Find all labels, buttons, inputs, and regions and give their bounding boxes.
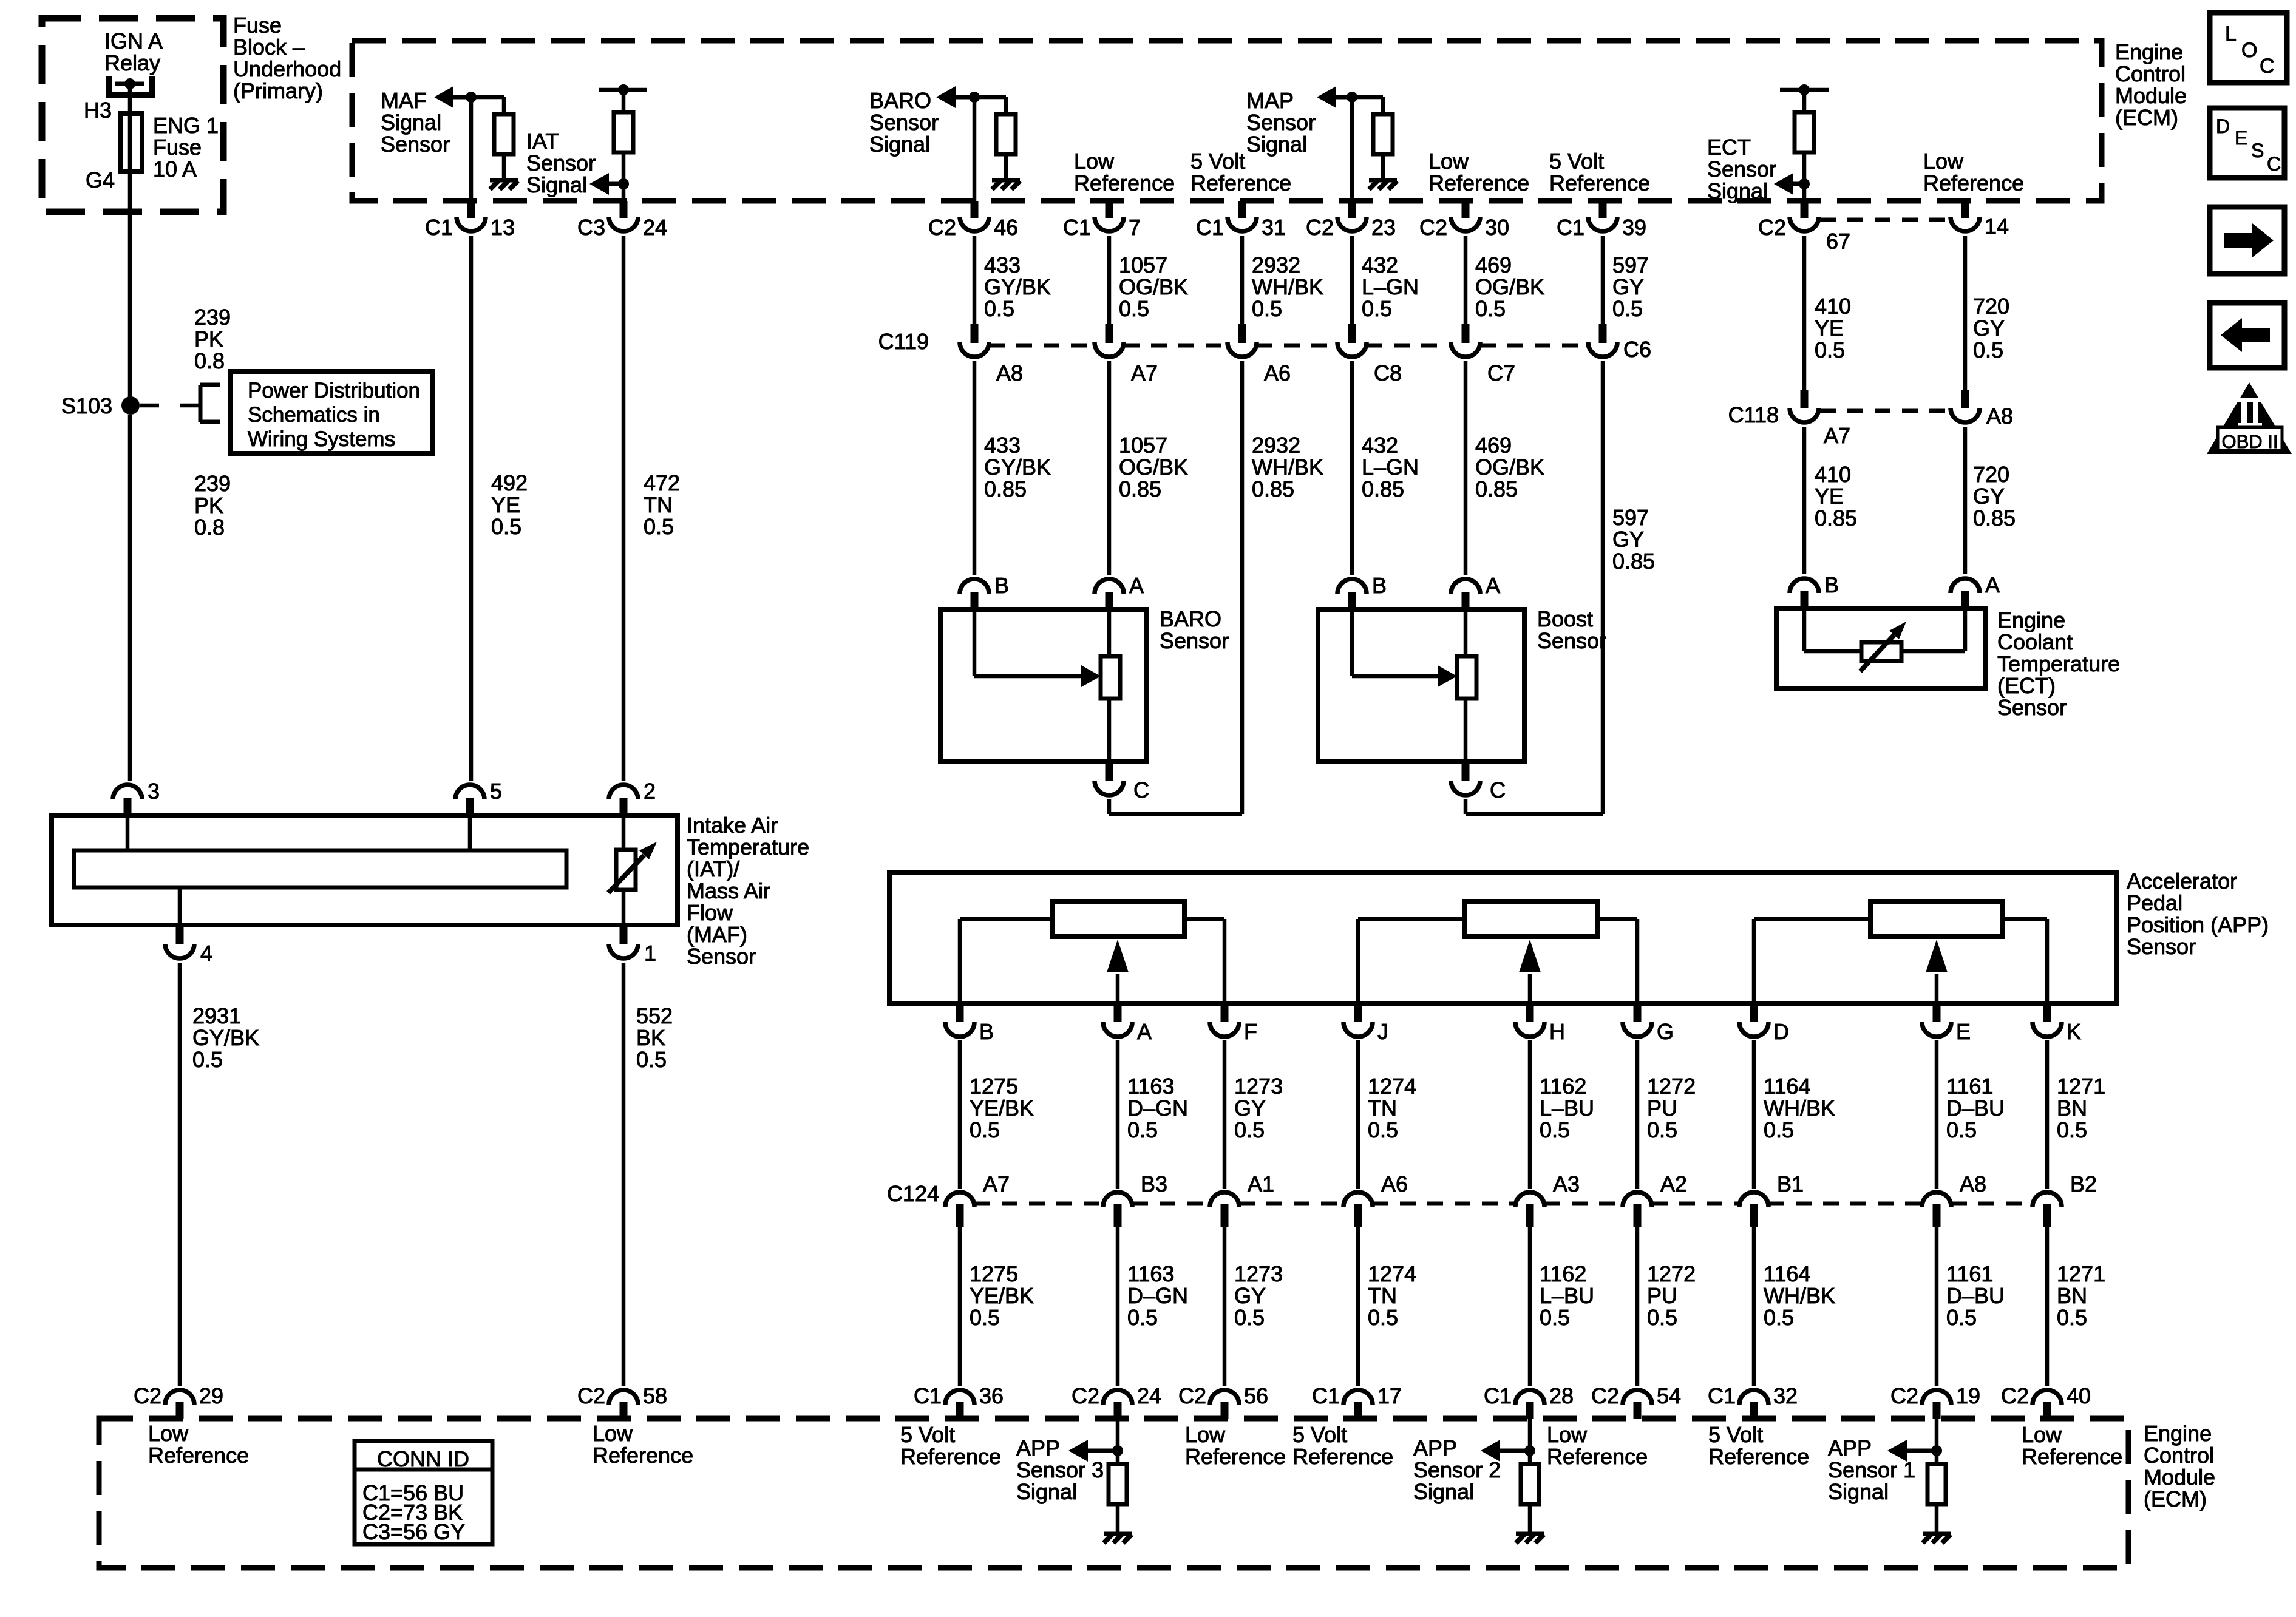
svg-text:1273: 1273	[1234, 1074, 1283, 1099]
resistor BARO pull-down	[996, 114, 1016, 154]
label Low Reference (C2-29)	[148, 1421, 249, 1468]
label 552 BK 0.5	[636, 1003, 673, 1072]
label Low Reference (C2-54)	[1547, 1422, 1648, 1469]
svg-text:G4: G4	[86, 168, 115, 192]
svg-text:24: 24	[643, 215, 667, 240]
svg-text:Signal: Signal	[381, 110, 441, 135]
wire resistor to ground	[1004, 154, 1008, 180]
ground (ECM internal)	[1369, 180, 1397, 189]
svg-text:GY: GY	[1973, 484, 2005, 509]
svg-text:Reference: Reference	[593, 1443, 693, 1468]
svg-text:30: 30	[1485, 215, 1509, 240]
svg-text:WH/BK: WH/BK	[1252, 274, 1323, 299]
svg-text:BN: BN	[2057, 1096, 2087, 1120]
pin 2	[609, 779, 656, 815]
connector C2-56 (ECM)	[1178, 1383, 1268, 1419]
svg-text:YE: YE	[1815, 316, 1844, 341]
svg-text:0.85: 0.85	[1973, 506, 2016, 531]
svg-text:472: 472	[644, 470, 680, 495]
connector C124 pin B1	[1739, 1171, 1804, 1227]
junction dot ECT signal	[1799, 178, 1810, 189]
svg-text:APP: APP	[1828, 1436, 1872, 1460]
svg-text:5 Volt: 5 Volt	[1292, 1422, 1347, 1447]
svg-text:410: 410	[1815, 462, 1851, 487]
wire 469 OG/BK 0.5	[1464, 236, 1468, 328]
svg-text:Signal: Signal	[869, 132, 930, 157]
label Boost Sensor	[1537, 606, 1606, 653]
svg-text:D: D	[1773, 1019, 1789, 1044]
pin A	[1103, 1003, 1152, 1044]
svg-text:1164: 1164	[1764, 1074, 1810, 1099]
svg-text:1162: 1162	[1540, 1074, 1586, 1099]
connector C124 pin A7	[945, 1171, 1010, 1227]
fuse ENG 1 10 A	[120, 114, 142, 172]
arrow APP2 wiper	[1528, 974, 1532, 1003]
svg-text:433: 433	[984, 253, 1021, 277]
potentiometer APP sensor 1	[1870, 901, 2003, 937]
svg-text:C1: C1	[1557, 215, 1584, 240]
label Low Reference (C2-30)	[1428, 149, 1529, 195]
connector C1-31 (ECM)	[1196, 201, 1286, 240]
wire 433 GY/BK 0.85	[973, 361, 977, 575]
arrow APP1 wiper	[1935, 974, 1939, 1003]
junction dot IAT signal	[618, 178, 629, 189]
wire 1161 D–BU 0.5 (lower)	[1935, 1227, 1939, 1386]
wire 492 net inside ECM	[469, 97, 474, 201]
svg-text:H3: H3	[84, 98, 112, 123]
label MAF Signal Sensor	[381, 88, 450, 157]
svg-text:D–BU: D–BU	[1946, 1096, 2005, 1120]
wire 410 YE 0.85	[1802, 427, 1807, 574]
svg-text:Reference: Reference	[1708, 1444, 1809, 1469]
svg-text:Intake Air: Intake Air	[687, 813, 778, 838]
svg-text:Temperature: Temperature	[1997, 651, 2120, 676]
svg-text:GY: GY	[1234, 1096, 1266, 1120]
svg-text:36: 36	[979, 1383, 1004, 1408]
svg-text:10 A: 10 A	[153, 157, 197, 181]
svg-text:C119: C119	[878, 329, 929, 354]
svg-text:1273: 1273	[1234, 1261, 1283, 1286]
label 1161 D–BU 0.5 upper	[1946, 1074, 2005, 1142]
label 469 OG/BK 0.85	[1475, 433, 1544, 501]
wire 1163 D–GN 0.5 (upper)	[1116, 1040, 1120, 1189]
pin B	[945, 1003, 994, 1044]
potentiometer APP sensor 2	[1465, 901, 1597, 937]
svg-text:Low: Low	[1074, 149, 1115, 174]
svg-text:1274: 1274	[1368, 1074, 1416, 1099]
pin A	[1951, 572, 2000, 609]
svg-text:E: E	[2235, 127, 2247, 149]
svg-text:C118: C118	[1728, 402, 1779, 427]
svg-text:492: 492	[491, 470, 528, 495]
svg-text:YE/BK: YE/BK	[970, 1096, 1034, 1120]
potentiometer Boost	[1457, 656, 1476, 699]
wire 1275 YE/BK 0.5 (lower)	[958, 1227, 962, 1386]
svg-text:Underhood: Underhood	[233, 56, 341, 81]
svg-text:C: C	[1133, 778, 1149, 802]
label 433 GY/BK 0.85	[984, 433, 1051, 501]
label 597 GY 0.85	[1612, 505, 1655, 574]
label 1272 PU 0.5 lower	[1647, 1261, 1696, 1330]
wire 472 TN 0.5 (IAT signal to sensor pin 2)	[622, 236, 626, 781]
arrowhead onto potentiometer	[1438, 665, 1457, 687]
wire pin 3 into element	[126, 815, 130, 850]
pin 1	[609, 925, 656, 966]
svg-text:C2: C2	[928, 215, 956, 240]
pin B	[1337, 573, 1387, 609]
label 1275 YE/BK 0.5 lower	[970, 1261, 1034, 1330]
svg-text:Reference: Reference	[900, 1444, 1001, 1469]
svg-text:Mass Air: Mass Air	[687, 878, 770, 903]
arrow ECT sensor signal	[1774, 173, 1793, 195]
svg-text:PK: PK	[194, 327, 223, 351]
in-line connector pin A6	[1228, 324, 1291, 385]
label Intake Air Temperature (IAT)/Mass Air Flow (MAF) Sensor	[687, 813, 809, 969]
label Power Distribution Schematics in Wiring Systems	[248, 379, 420, 451]
svg-text:40: 40	[2067, 1383, 2091, 1408]
svg-text:2931: 2931	[192, 1003, 241, 1028]
wire Boost pin C to 5V reference net	[1464, 799, 1468, 814]
svg-text:54: 54	[1657, 1383, 1681, 1408]
junction dot ECT top	[1799, 84, 1810, 95]
Engine Coolant Temperature (ECT) Sensor box	[1776, 609, 1985, 689]
svg-text:S103: S103	[61, 393, 112, 418]
connector C1-32 (ECM)	[1708, 1383, 1798, 1419]
svg-text:C2: C2	[1306, 215, 1334, 240]
label MAP Sensor Signal	[1246, 88, 1316, 157]
svg-text:TN: TN	[644, 492, 673, 517]
label BARO Sensor	[1160, 606, 1229, 653]
wire 1161 D–BU 0.5 (upper)	[1935, 1040, 1939, 1189]
junction dot relay output	[124, 78, 135, 89]
label 1272 PU 0.5 upper	[1647, 1074, 1696, 1142]
junction dot MAF signal	[466, 92, 477, 103]
svg-text:A7: A7	[983, 1171, 1010, 1196]
wire 1272 PU 0.5 (lower)	[1635, 1227, 1640, 1386]
svg-text:(ECM): (ECM)	[2144, 1486, 2207, 1511]
label Engine Control Module (ECM) top	[2115, 39, 2187, 130]
wire BARO pullup leg	[1004, 97, 1008, 115]
svg-text:0.5: 0.5	[1612, 296, 1643, 321]
svg-text:L–GN: L–GN	[1362, 455, 1419, 480]
svg-text:F: F	[1244, 1019, 1257, 1044]
wire 1271 BN 0.5 (lower)	[2045, 1227, 2050, 1386]
svg-text:B1: B1	[1777, 1171, 1804, 1196]
svg-text:K: K	[2067, 1019, 2081, 1044]
svg-text:C1: C1	[1708, 1383, 1736, 1408]
pin C	[1451, 762, 1506, 802]
svg-text:C2: C2	[1419, 215, 1447, 240]
connector C1-13 (ECM)	[425, 201, 515, 240]
wire resistor to ground	[502, 154, 506, 180]
wire 720 GY 0.85	[1963, 427, 1968, 574]
wire 1164 WH/BK 0.5 (upper)	[1752, 1040, 1756, 1189]
svg-text:0.5: 0.5	[1973, 337, 2003, 362]
resistor APP1 (ECM internal)	[1927, 1464, 1946, 1504]
connector C124 pin A8	[1922, 1171, 1986, 1227]
svg-text:A2: A2	[1660, 1171, 1687, 1196]
svg-text:YE: YE	[1815, 484, 1844, 509]
svg-text:Signal: Signal	[1246, 132, 1307, 157]
svg-text:0.5: 0.5	[1946, 1305, 1977, 1330]
svg-text:0.85: 0.85	[1119, 476, 1161, 501]
in-line connector pin C7	[1451, 324, 1515, 385]
connector C3-24 (ECM)	[577, 201, 667, 240]
svg-text:469: 469	[1475, 433, 1512, 458]
svg-text:Engine: Engine	[2144, 1421, 2212, 1446]
svg-text:720: 720	[1973, 462, 2009, 487]
wire ECT top to resistor	[1802, 90, 1807, 114]
svg-text:C2: C2	[1758, 215, 1786, 240]
svg-text:Wiring Systems: Wiring Systems	[248, 427, 395, 451]
svg-text:432: 432	[1362, 433, 1398, 458]
svg-text:28: 28	[1549, 1383, 1574, 1408]
icon right arrow box	[2210, 207, 2284, 274]
wire 433 GY/BK 0.5	[973, 236, 977, 328]
svg-text:IGN A: IGN A	[104, 29, 163, 53]
label 1273 GY 0.5 lower	[1234, 1261, 1283, 1330]
MAF sensing element	[74, 850, 566, 887]
arrow BARO signal	[936, 86, 956, 108]
svg-text:0.5: 0.5	[984, 296, 1014, 321]
label 1271 BN 0.5 lower	[2057, 1261, 2105, 1330]
dashed line connector C2 67-14	[1820, 218, 1949, 222]
svg-text:YE: YE	[491, 492, 520, 517]
svg-text:IAT: IAT	[526, 129, 559, 154]
ground (ECM internal)	[992, 180, 1020, 189]
svg-text:BARO: BARO	[869, 88, 931, 113]
dashed line connector C118	[1820, 409, 1949, 413]
svg-text:29: 29	[199, 1383, 223, 1408]
pin D	[1739, 1003, 1789, 1044]
svg-text:Reference: Reference	[1547, 1444, 1648, 1469]
svg-text:3: 3	[148, 779, 160, 804]
svg-text:WH/BK: WH/BK	[1252, 455, 1323, 480]
svg-text:0.5: 0.5	[1234, 1305, 1265, 1330]
connector C2-30 (ECM)	[1419, 201, 1509, 240]
wire 2932 WH/BK 0.85	[1240, 361, 1245, 814]
svg-text:56: 56	[1244, 1383, 1268, 1408]
svg-text:67: 67	[1826, 229, 1850, 254]
wire resistor to ground	[1935, 1504, 1939, 1533]
wire 1273 GY 0.5 (upper)	[1223, 1040, 1227, 1189]
svg-text:C124: C124	[887, 1181, 939, 1206]
svg-text:B2: B2	[2070, 1171, 2097, 1196]
wire 432 L-GN 0.85	[1350, 361, 1354, 575]
svg-text:ENG 1: ENG 1	[153, 113, 219, 138]
wire 1271 BN 0.5 (upper)	[2045, 1040, 2050, 1189]
svg-text:239: 239	[194, 471, 231, 496]
svg-text:0.5: 0.5	[1252, 296, 1282, 321]
svg-text:Position (APP): Position (APP)	[2127, 912, 2269, 937]
label Low Reference (pin 14)	[1923, 149, 2024, 195]
svg-text:0.5: 0.5	[1946, 1117, 1977, 1142]
svg-text:GY: GY	[1234, 1283, 1266, 1308]
connector C1-39 (ECM)	[1557, 201, 1646, 240]
label 1273 GY 0.5 upper	[1234, 1074, 1283, 1142]
svg-text:2: 2	[644, 779, 656, 804]
svg-text:O: O	[2241, 39, 2257, 62]
svg-text:0.5: 0.5	[1368, 1305, 1398, 1330]
svg-text:D–GN: D–GN	[1127, 1096, 1188, 1120]
svg-text:1163: 1163	[1127, 1074, 1174, 1099]
label Low Reference (C1-7)	[1074, 149, 1175, 195]
svg-text:BARO: BARO	[1160, 606, 1221, 631]
svg-text:Reference: Reference	[1428, 171, 1529, 195]
resistor IAT pull-up	[614, 112, 633, 152]
svg-text:C2: C2	[134, 1383, 161, 1408]
svg-text:0.5: 0.5	[1764, 1117, 1794, 1142]
svg-text:597: 597	[1612, 253, 1649, 277]
wire 552 BK 0.5	[622, 963, 626, 1386]
svg-text:0.85: 0.85	[1362, 476, 1404, 501]
label 5 Volt Reference (C1-31)	[1190, 149, 1291, 195]
wire pin 5 into element	[468, 815, 472, 850]
wire S103 branch stub	[140, 404, 159, 408]
svg-text:Sensor 3: Sensor 3	[1016, 1457, 1104, 1482]
svg-text:(ECM): (ECM)	[2115, 105, 2178, 130]
svg-text:C1: C1	[1484, 1383, 1512, 1408]
svg-text:597: 597	[1612, 505, 1649, 530]
wire Boost internal signal	[1350, 609, 1354, 676]
wire 1275 YE/BK 0.5 (upper)	[958, 1040, 962, 1189]
svg-text:Low: Low	[1547, 1422, 1588, 1447]
svg-text:C7: C7	[1487, 361, 1515, 385]
wire resistor to ground	[1116, 1504, 1120, 1533]
svg-text:1272: 1272	[1647, 1261, 1696, 1286]
svg-text:0.85: 0.85	[1815, 506, 1857, 531]
svg-text:410: 410	[1815, 294, 1851, 319]
svg-text:GY/BK: GY/BK	[984, 274, 1051, 299]
wire MAP arrow line to pullup leg	[1352, 95, 1383, 100]
potentiometer BARO	[1101, 656, 1120, 699]
in-line connector pin A8	[1951, 390, 2013, 429]
svg-text:GY: GY	[1973, 316, 2005, 341]
label 5 Volt Reference (C1-39)	[1549, 149, 1650, 195]
svg-text:0.85: 0.85	[1252, 476, 1294, 501]
svg-text:OBD II: OBD II	[2221, 431, 2278, 452]
label 1164 WH/BK 0.5 upper	[1764, 1074, 1835, 1142]
svg-text:Sensor: Sensor	[2127, 934, 2196, 959]
junction dot	[1524, 1445, 1535, 1456]
wire 1163 D–GN 0.5 (lower)	[1116, 1227, 1120, 1386]
label Low Reference (C2-40)	[2022, 1422, 2122, 1469]
pin A	[1095, 573, 1144, 609]
pin 5	[455, 779, 502, 815]
wire pullup leg down	[502, 97, 506, 115]
svg-text:GY: GY	[1612, 527, 1644, 552]
svg-text:1057: 1057	[1119, 433, 1167, 458]
wire 597 GY 0.85	[1601, 361, 1605, 814]
label IAT Sensor Signal	[526, 129, 596, 197]
pin F	[1210, 1003, 1257, 1044]
svg-text:1271: 1271	[2057, 1074, 2105, 1099]
wire 1274 TN 0.5 (upper)	[1356, 1040, 1360, 1189]
arrow MAF signal	[434, 86, 453, 108]
wire APP3 right leg	[1184, 917, 1224, 921]
svg-text:S: S	[2251, 140, 2264, 161]
svg-text:552: 552	[636, 1003, 673, 1028]
svg-text:1057: 1057	[1119, 253, 1167, 277]
svg-text:PU: PU	[1647, 1096, 1677, 1120]
wire ECT internal left	[1802, 609, 1807, 651]
wire BARO arrow line to pullup leg	[974, 95, 1006, 100]
svg-text:14: 14	[1985, 214, 2009, 239]
ground (ECM internal)	[1516, 1534, 1544, 1543]
svg-text:Control: Control	[2115, 61, 2186, 86]
svg-text:1164: 1164	[1764, 1261, 1810, 1286]
label 2932 WH/BK 0.5	[1252, 253, 1323, 321]
wire 469 OG/BK 0.85	[1464, 361, 1468, 575]
label 410 YE 0.85	[1815, 462, 1857, 531]
svg-text:ECT: ECT	[1707, 135, 1751, 160]
svg-text:Reference: Reference	[1292, 1444, 1393, 1469]
svg-text:1271: 1271	[2057, 1261, 2105, 1286]
label 1271 BN 0.5 upper	[2057, 1074, 2105, 1142]
off-page bracket to Power Distribution	[180, 385, 220, 422]
arrow APP sensor 2 signal	[1481, 1440, 1500, 1462]
thermistor ECT	[1861, 642, 1901, 661]
resistor APP3 (ECM internal)	[1109, 1464, 1127, 1504]
wire resistor to ground	[1381, 154, 1385, 180]
svg-text:B3: B3	[1141, 1171, 1167, 1196]
svg-text:1161: 1161	[1946, 1074, 1993, 1099]
connector C2-23 (ECM)	[1306, 201, 1396, 240]
junction dot	[1112, 1445, 1123, 1456]
label Engine Coolant Temperature (ECT) Sensor	[1997, 608, 2120, 720]
svg-text:L–GN: L–GN	[1362, 274, 1419, 299]
svg-text:C2: C2	[1591, 1383, 1619, 1408]
svg-text:A: A	[1137, 1019, 1152, 1044]
svg-text:GY: GY	[1612, 274, 1644, 299]
connector C124 pin A1	[1210, 1171, 1274, 1227]
label 1163 D–GN 0.5 lower	[1127, 1261, 1188, 1330]
wire BARO pin C to 5V reference net	[1107, 799, 1112, 814]
svg-text:(Primary): (Primary)	[233, 78, 323, 103]
wire pin 2 to thermistor	[622, 815, 626, 850]
svg-text:C8: C8	[1374, 361, 1402, 385]
svg-text:APP: APP	[1016, 1436, 1060, 1460]
svg-text:C2: C2	[1072, 1383, 1099, 1408]
svg-text:31: 31	[1262, 215, 1286, 240]
junction dot MAP signal	[1347, 92, 1357, 103]
svg-text:Fuse: Fuse	[233, 13, 282, 38]
Intake Air Temperature (IAT) / Mass Air Flow (MAF) Sensor box	[52, 815, 678, 925]
svg-text:Sensor 2: Sensor 2	[1413, 1457, 1501, 1482]
svg-text:Module: Module	[2144, 1465, 2215, 1490]
connector C1-28 (ECM)	[1484, 1383, 1574, 1419]
svg-text:B: B	[1372, 573, 1387, 598]
svg-text:1162: 1162	[1540, 1261, 1586, 1286]
svg-text:Engine: Engine	[1997, 608, 2065, 632]
svg-text:Sensor: Sensor	[687, 944, 756, 969]
svg-text:433: 433	[984, 433, 1021, 458]
svg-text:Schematics in: Schematics in	[248, 403, 380, 427]
svg-text:Signal: Signal	[526, 172, 587, 197]
connector C2-67 (ECM)	[1758, 201, 1850, 254]
label 492 YE 0.5	[491, 470, 528, 539]
ECT sensor signal T-bar	[1780, 88, 1829, 92]
connector C2-46 (ECM)	[928, 201, 1018, 240]
wire APP3 left leg	[958, 919, 962, 1003]
svg-text:Flow: Flow	[687, 900, 733, 925]
wire resistor to IAT arrow junction	[622, 152, 626, 201]
svg-text:7: 7	[1129, 215, 1141, 240]
svg-text:5 Volt: 5 Volt	[900, 1422, 955, 1447]
svg-text:C3: C3	[577, 215, 605, 240]
label 433 GY/BK 0.5	[984, 253, 1051, 321]
wire 1272 PU 0.5 (upper)	[1635, 1040, 1640, 1189]
